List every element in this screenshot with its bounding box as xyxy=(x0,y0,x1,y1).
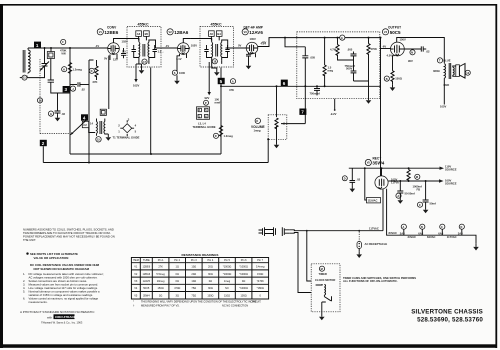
svg-text:A6: A6 xyxy=(137,32,141,36)
bypass cap 100mmf xyxy=(204,98,221,106)
power plug xyxy=(259,227,276,236)
T3 primary coil xyxy=(191,39,213,61)
svg-text:NUMBERS ASSIGNED TO COILS, SWI: NUMBERS ASSIGNED TO COILS, SWITCHES, PLU… xyxy=(23,228,114,232)
T2 ground xyxy=(133,60,149,87)
T3 ground and vertical to bus1 xyxy=(212,60,222,76)
svg-text:3Ω: 3Ω xyxy=(159,293,162,297)
interlock connector xyxy=(282,227,289,236)
capacitor 750mmf 500V xyxy=(345,60,357,81)
svg-text:0Ω: 0Ω xyxy=(176,272,179,276)
svg-text:75Ω: 75Ω xyxy=(191,286,196,290)
svg-text:34VAC: 34VAC xyxy=(408,235,417,239)
svg-text:NC NO CONNECTION: NC NO CONNECTION xyxy=(222,303,248,307)
svg-text:455KC: 455KC xyxy=(138,23,149,27)
100V source line xyxy=(388,180,439,182)
capacitor .005 inner xyxy=(347,48,357,61)
svg-text:.005: .005 xyxy=(310,55,316,59)
svg-text:90V: 90V xyxy=(408,59,413,63)
svg-text:TERMINAL GUIDE: TERMINAL GUIDE xyxy=(193,125,216,129)
grid resistor 1.5meg xyxy=(323,38,333,87)
svg-text:TRANSFORMERS ARE TO FACILITATE: TRANSFORMERS ARE TO FACILITATE CIRCUIT T… xyxy=(23,231,111,235)
svg-text:M: M xyxy=(321,267,323,271)
ground right of osc coil xyxy=(106,134,112,141)
svg-text:Pin 5: Pin 5 xyxy=(224,258,230,262)
svg-text:VOLUME: VOLUME xyxy=(251,125,265,129)
svg-text:G: G xyxy=(50,112,52,116)
L3 L4 terminal guide xyxy=(193,107,216,129)
110V source line xyxy=(349,167,440,169)
svg-text:5.5meg: 5.5meg xyxy=(156,272,165,276)
svg-text:NC: NC xyxy=(225,286,229,290)
svg-text:47K: 47K xyxy=(229,88,234,92)
svg-text:TIMER: TIMER xyxy=(319,272,327,276)
svg-text:10Ω: 10Ω xyxy=(191,279,196,283)
svg-text:B: B xyxy=(386,77,388,81)
AVC resistor R 1.2meg near bus1 xyxy=(213,133,233,138)
resistor F 470K on main wire (series, above) xyxy=(60,39,66,55)
svg-text:4: 4 xyxy=(83,116,86,121)
svg-text:1Ω: 1Ω xyxy=(176,265,179,269)
svg-text:A: A xyxy=(397,194,399,198)
filter resistor FB between rails xyxy=(407,167,410,182)
T1 terminal guide glyph xyxy=(113,118,140,140)
svg-text:.02: .02 xyxy=(61,112,65,116)
svg-text:100V: 100V xyxy=(250,37,256,41)
svg-text:Measured values are from socke: Measured values are from socket pin to c… xyxy=(29,283,99,287)
svg-text:PONENT REPLACEMENT AND MAY NOT: PONENT REPLACEMENT AND MAY NOT NECESSARI… xyxy=(23,235,115,239)
svg-text:BLUE: BLUE xyxy=(443,58,451,62)
svg-text:R: R xyxy=(215,134,217,138)
svg-text:455KC: 455KC xyxy=(211,23,222,27)
svg-text:30Ω: 30Ω xyxy=(208,272,213,276)
converter grid box wires xyxy=(89,60,94,163)
svg-text:6A3: 6A3 xyxy=(438,232,443,236)
svg-text:D: D xyxy=(461,225,463,229)
svg-text:115VAC: 115VAC xyxy=(368,199,378,203)
svg-text:84VAC: 84VAC xyxy=(427,235,436,239)
svg-text:5: 5 xyxy=(220,79,223,84)
svg-text:NOT SHOWN ON SCHEMATIC DIAGRAM: NOT SHOWN ON SCHEMATIC DIAGRAM xyxy=(34,267,90,271)
svg-text:CIRCUITRACE: CIRCUITRACE xyxy=(55,315,76,319)
svg-text:©Howard W. Sams & Co., Inc. 19: ©Howard W. Sams & Co., Inc. 1963 xyxy=(41,321,83,325)
svg-text:4.5V: 4.5V xyxy=(261,42,267,46)
vertical AVC branch x68 xyxy=(69,48,71,154)
svg-text:Pin 6: Pin 6 xyxy=(241,258,247,262)
square 3 xyxy=(63,86,70,92)
resistor H 1.2meg xyxy=(62,63,83,74)
svg-text:D: D xyxy=(91,69,93,73)
svg-text:B5: B5 xyxy=(145,32,149,36)
svg-text:50C5: 50C5 xyxy=(390,30,401,35)
svg-text:*1000Ω: *1000Ω xyxy=(223,265,232,269)
coupling capacitor .005 xyxy=(302,47,315,124)
svg-text:102V: 102V xyxy=(191,44,197,48)
svg-text:Nominal tolerance on component: Nominal tolerance on component values ma… xyxy=(29,290,101,294)
resistor D 27K xyxy=(89,60,98,84)
svg-text:2: 2 xyxy=(42,141,45,146)
bus2 xyxy=(43,162,268,164)
svg-text:0V: 0V xyxy=(104,57,107,61)
svg-text:105V: 105V xyxy=(440,105,446,109)
resistor R 1.2meg AVC to bus1 (zigzag) xyxy=(219,126,222,137)
square 2 xyxy=(40,140,47,146)
svg-text:E: E xyxy=(341,36,343,40)
pilot lamps xyxy=(400,224,416,239)
tube V4 50C5 output xyxy=(382,26,406,56)
svg-text:6.: 6. xyxy=(23,297,26,301)
T3 pin boxes xyxy=(209,31,215,37)
svg-text:0Ω: 0Ω xyxy=(209,279,212,283)
tube V5 35W4 rectifier xyxy=(365,157,388,190)
svg-text:6: 6 xyxy=(283,81,286,86)
svg-text:Pin 7: Pin 7 xyxy=(257,258,263,262)
capacitor G .02 with ground xyxy=(48,111,65,116)
svg-text:THE UNIT.: THE UNIT. xyxy=(23,238,36,242)
svg-text:C: C xyxy=(419,203,421,207)
square 4 xyxy=(81,114,88,120)
see parts list note xyxy=(26,252,99,271)
svg-text:CIRCUIT.: CIRCUIT. xyxy=(251,300,262,304)
svg-text:A5: A5 xyxy=(210,32,214,36)
svg-text:*1000Ω: *1000Ω xyxy=(239,286,248,290)
svg-text:Pin 1: Pin 1 xyxy=(158,258,164,262)
svg-text:D: D xyxy=(344,177,346,181)
svg-text:50-50mf: 50-50mf xyxy=(405,192,415,196)
numbered notes list xyxy=(23,272,104,304)
svg-text:variation of ±15% in voltage a: variation of ±15% in voltage and resista… xyxy=(29,293,94,297)
svg-text:N: N xyxy=(411,51,413,55)
svg-text:75Ω: 75Ω xyxy=(191,293,196,297)
svg-text:105Ω: 105Ω xyxy=(241,293,247,297)
wire sq2 to bus2 xyxy=(42,146,44,162)
T2 secondary return to bus1 xyxy=(150,68,152,155)
svg-text:470K: 470K xyxy=(371,47,377,51)
svg-text:20Ω: 20Ω xyxy=(208,265,213,269)
svg-text:360Ω: 360Ω xyxy=(433,69,440,73)
svg-text:35W4: 35W4 xyxy=(143,293,150,297)
AC line right segment with lamps xyxy=(473,244,479,251)
svg-text:750mmf: 750mmf xyxy=(310,91,320,95)
svg-text:30Ω: 30Ω xyxy=(208,286,213,290)
electrolytic C 50mf to ground xyxy=(417,180,435,213)
svg-text:meg: meg xyxy=(328,69,334,72)
svg-text:T1 TERMINAL GUIDE: T1 TERMINAL GUIDE xyxy=(113,136,140,140)
svg-text:B4: B4 xyxy=(217,32,221,36)
svg-text:AC voltages measured with 1000: AC voltages measured with 1000 ohm per v… xyxy=(29,276,98,280)
svg-text:M: M xyxy=(416,175,418,179)
svg-text:12V: 12V xyxy=(113,58,118,62)
svg-text:2.: 2. xyxy=(23,279,26,283)
resistor 470K inner xyxy=(367,37,377,81)
T3 B+ primary lead 92V xyxy=(205,62,211,100)
svg-text:1.5→: 1.5→ xyxy=(158,50,165,54)
svg-text:SOURCE: SOURCE xyxy=(445,168,457,172)
bus1 xyxy=(70,153,221,155)
svg-text:*180Ω: *180Ω xyxy=(257,286,264,290)
plate bypass cap M .02 xyxy=(404,46,430,63)
svg-text:84VAC: 84VAC xyxy=(389,231,398,235)
svg-text:C2: C2 xyxy=(83,123,87,127)
svg-text:7: 7 xyxy=(301,110,304,115)
svg-text:50mf: 50mf xyxy=(430,202,436,206)
node 11 (loop antenna terminal) xyxy=(20,75,27,80)
trimmer capacitor under L2 xyxy=(48,59,70,112)
svg-text:14: 14 xyxy=(90,122,93,126)
svg-text:1.2meg: 1.2meg xyxy=(224,134,234,138)
audio output dashed box xyxy=(297,32,380,99)
line bypass cap .02 xyxy=(342,168,360,192)
svg-text:1meg: 1meg xyxy=(254,129,261,133)
svg-text:117VAC: 117VAC xyxy=(369,226,379,230)
svg-text:.02: .02 xyxy=(426,49,430,53)
IF transformer T3 455KC dashed box xyxy=(200,23,234,68)
svg-text:A: A xyxy=(403,225,405,229)
svg-text:0V: 0V xyxy=(238,44,241,48)
oscillator coil T1 xyxy=(89,119,109,136)
svg-text:12BA6: 12BA6 xyxy=(174,30,189,35)
IF transformer T2 455KC dashed box xyxy=(127,23,161,68)
V4 plate to output transformer xyxy=(397,38,445,64)
svg-text:A PHOTOFACT STANDARD NOTATI: A PHOTOFACT STANDARD NOTATION SCHEMATIC xyxy=(20,310,95,314)
svg-text:27K: 27K xyxy=(93,80,98,84)
svg-text:150Ω: 150Ω xyxy=(257,272,263,276)
svg-text:.005: .005 xyxy=(347,48,353,52)
oscillator variable cap C1B xyxy=(71,120,89,135)
T2 pin boxes xyxy=(136,31,142,37)
svg-text:S: S xyxy=(174,71,176,75)
svg-text:4.: 4. xyxy=(23,286,26,290)
gang linkage dashed xyxy=(39,59,41,134)
resistor 4.7meg xyxy=(330,37,354,60)
coil L2 box xyxy=(47,48,54,59)
svg-text:VALUE OR APPLICATION: VALUE OR APPLICATION xyxy=(34,256,69,260)
svg-text:1meg: 1meg xyxy=(224,279,231,283)
svg-text:C: C xyxy=(441,225,443,229)
svg-text:OUTPUT: OUTPUT xyxy=(388,26,401,30)
volume control K dashed box xyxy=(251,86,287,148)
svg-text:12BA6: 12BA6 xyxy=(142,272,150,276)
svg-text:20Ω: 20Ω xyxy=(191,272,196,276)
svg-text:ITEM: ITEM xyxy=(133,258,139,262)
svg-text:B: B xyxy=(421,225,423,229)
V3 plate wire to coupling xyxy=(258,38,340,47)
gang designator circle 16 xyxy=(37,98,42,103)
svg-text:*1000Ω: *1000Ω xyxy=(223,272,232,276)
svg-text:Pin 4: Pin 4 xyxy=(207,258,213,262)
antenna coil L1 xyxy=(23,48,30,74)
T2 secondary coil xyxy=(143,40,156,60)
capacitor 750mmf on bus3 xyxy=(310,86,321,95)
filter cap M 1000mf xyxy=(413,174,422,191)
square 5 xyxy=(218,78,225,84)
resistance table xyxy=(131,253,268,307)
svg-text:H: H xyxy=(63,67,65,71)
svg-text:5.4meg: 5.4meg xyxy=(256,265,265,269)
svg-text:12AV6: 12AV6 xyxy=(143,279,151,283)
wiper arrow to coupling line xyxy=(281,123,305,125)
svg-text:with: with xyxy=(47,315,52,319)
svg-text:35W4: 35W4 xyxy=(372,161,384,166)
svg-text:ALL FUNCTIONS OF OFF-ON-AUTOMA: ALL FUNCTIONS OF OFF-ON-AUTOMATIC. xyxy=(343,279,398,283)
page border frame xyxy=(0,4,3,348)
square 7 xyxy=(299,109,306,115)
T3 designator circle xyxy=(212,59,217,64)
svg-text:*: * xyxy=(133,300,134,304)
svg-text:1.5→: 1.5→ xyxy=(122,50,129,54)
svg-text:1: 1 xyxy=(36,43,39,48)
svg-text:10Ω: 10Ω xyxy=(191,265,196,269)
timer dashed box xyxy=(311,264,340,321)
main signal wire top xyxy=(28,47,108,49)
resistor A 47K on AVC bus xyxy=(229,79,236,92)
svg-text:10meg: 10meg xyxy=(157,279,165,283)
cathode resistor V2 with ground xyxy=(172,54,185,85)
svg-text:12BE6: 12BE6 xyxy=(104,30,118,35)
svg-text:mmf: mmf xyxy=(215,100,221,104)
capacitor J .02 branch xyxy=(70,82,89,91)
svg-text:Volume control at maximum, no: Volume control at maximum, no signal app… xyxy=(29,297,99,301)
svg-text:27K: 27K xyxy=(158,265,163,269)
ground below output box xyxy=(354,81,369,97)
svg-text:3Ω: 3Ω xyxy=(176,293,179,297)
svg-text:3: 3 xyxy=(65,87,68,92)
svg-text:0Ω: 0Ω xyxy=(242,279,245,283)
svg-text:SOURCE: SOURCE xyxy=(445,182,457,186)
svg-text:1.: 1. xyxy=(23,272,26,276)
tube V3 12AV6 det-af xyxy=(238,26,266,54)
tube V2 12BA6 IF amp xyxy=(165,29,197,61)
V3 cathode ground xyxy=(246,53,251,57)
svg-text:1.2meg: 1.2meg xyxy=(73,68,83,72)
svg-text:CLOCK MOTOR: CLOCK MOTOR xyxy=(315,278,335,282)
T2 primary coil xyxy=(121,39,140,61)
ground under cap G xyxy=(57,113,59,115)
osc pin box B2 xyxy=(100,109,106,115)
svg-text:500V: 500V xyxy=(346,67,352,71)
svg-text:2A4: 2A4 xyxy=(400,232,405,236)
grid wire from box to V4 xyxy=(380,48,391,50)
electrolytic A 50+50mf to ground xyxy=(396,180,415,204)
svg-text:-1V: -1V xyxy=(95,44,99,48)
speaker xyxy=(453,64,471,79)
svg-text:150Ω: 150Ω xyxy=(158,286,164,290)
svg-text:12BE6: 12BE6 xyxy=(142,265,150,269)
svg-text:Line voltage maintained at 117: Line voltage maintained at 117 volts for… xyxy=(29,286,99,290)
measure point -9.2V xyxy=(334,99,336,110)
svg-text:FB: FB xyxy=(417,187,421,191)
svg-text:.02: .02 xyxy=(356,177,360,181)
bus3 AVC line xyxy=(221,85,381,87)
svg-text:THIS READING WILL VARY DEPENDI: THIS READING WILL VARY DEPENDING UPON TH… xyxy=(141,300,257,304)
AC receptacle xyxy=(356,230,387,258)
svg-text:3A4: 3A4 xyxy=(458,232,463,236)
svg-text:5.: 5. xyxy=(23,290,26,294)
svg-text:1000: 1000 xyxy=(179,71,185,75)
svg-text:150Ω: 150Ω xyxy=(395,77,402,81)
heater wires to AC line xyxy=(382,189,384,231)
svg-text:528.53690, 528.53760: 528.53690, 528.53760 xyxy=(417,317,483,324)
node 15 osc coil terminal xyxy=(96,137,101,142)
svg-text:4.5V: 4.5V xyxy=(387,54,393,58)
output transformer T4 xyxy=(433,58,451,109)
svg-text:†470K: †470K xyxy=(257,279,265,283)
T2 designator circle xyxy=(142,59,147,64)
svg-text:DC voltage measurements taken: DC voltage measurements taken with vacuu… xyxy=(29,272,104,276)
tube V1 12BE6 converter xyxy=(95,26,128,62)
svg-text:RESISTANCE READINGS: RESISTANCE READINGS xyxy=(182,253,219,257)
svg-text:3.: 3. xyxy=(23,283,26,287)
svg-text:*1000Ω: *1000Ω xyxy=(239,265,248,269)
svg-text:Pin 2: Pin 2 xyxy=(174,258,180,262)
junction dots on main wire xyxy=(44,47,46,49)
wire antenna bottom to gang xyxy=(27,72,45,78)
svg-text:92V: 92V xyxy=(205,96,210,100)
T3 secondary coil xyxy=(216,40,228,60)
svg-text:K: K xyxy=(256,119,258,123)
svg-text:-9.2V: -9.2V xyxy=(330,112,337,116)
svg-text:measurements.: measurements. xyxy=(29,300,48,304)
svg-text:TUBE: TUBE xyxy=(143,258,150,262)
svg-text:½W: ½W xyxy=(61,51,66,55)
svg-text:P: P xyxy=(205,101,207,105)
svg-text:110Ω: 110Ω xyxy=(224,293,230,297)
svg-text:Socket connections are shown a: Socket connections are shown as bottom v… xyxy=(29,279,88,283)
115VAC label box xyxy=(365,168,399,203)
svg-text:6A2: 6A2 xyxy=(418,232,423,236)
svg-text:CONV: CONV xyxy=(107,26,117,30)
svg-text:-1V: -1V xyxy=(165,44,169,48)
T3 trimmer caps xyxy=(204,50,208,52)
svg-text:0Ω: 0Ω xyxy=(176,279,179,283)
svg-text:-6V: -6V xyxy=(382,45,386,49)
svg-text:130Ω: 130Ω xyxy=(207,293,213,297)
svg-text:117VAC: 117VAC xyxy=(447,235,457,239)
svg-text:MEASURED FROM PIN 7 OF V5.: MEASURED FROM PIN 7 OF V5. xyxy=(141,303,180,307)
svg-text:4.7M: 4.7M xyxy=(330,47,337,51)
notes paragraph xyxy=(23,228,115,243)
svg-text:12AV6: 12AV6 xyxy=(249,30,263,35)
svg-text:AC RECEPTACLE: AC RECEPTACLE xyxy=(365,242,388,246)
svg-text:.02: .02 xyxy=(81,88,85,92)
svg-text:*1000Ω: *1000Ω xyxy=(239,272,248,276)
svg-text:Pin 3: Pin 3 xyxy=(191,258,197,262)
tuning capacitor C1A (variable) xyxy=(40,48,49,72)
T2 trimmer caps xyxy=(132,50,136,52)
square 6 xyxy=(281,80,288,86)
svg-text:A: A xyxy=(232,79,234,83)
pot bottom to bus2 xyxy=(267,139,269,162)
AC line wires xyxy=(289,229,383,232)
svg-text:SILVERTONE CHASSIS: SILVERTONE CHASSIS xyxy=(411,309,483,316)
svg-text:470Ω: 470Ω xyxy=(174,286,180,290)
B+ verticals to rectifier xyxy=(380,38,382,176)
svg-text:102V: 102V xyxy=(133,83,139,87)
circle E on coupling wire xyxy=(340,35,381,40)
svg-text:50C5: 50C5 xyxy=(143,286,150,290)
V4 cathode resistor B 150ohm xyxy=(384,54,403,92)
square 1 xyxy=(34,42,41,48)
